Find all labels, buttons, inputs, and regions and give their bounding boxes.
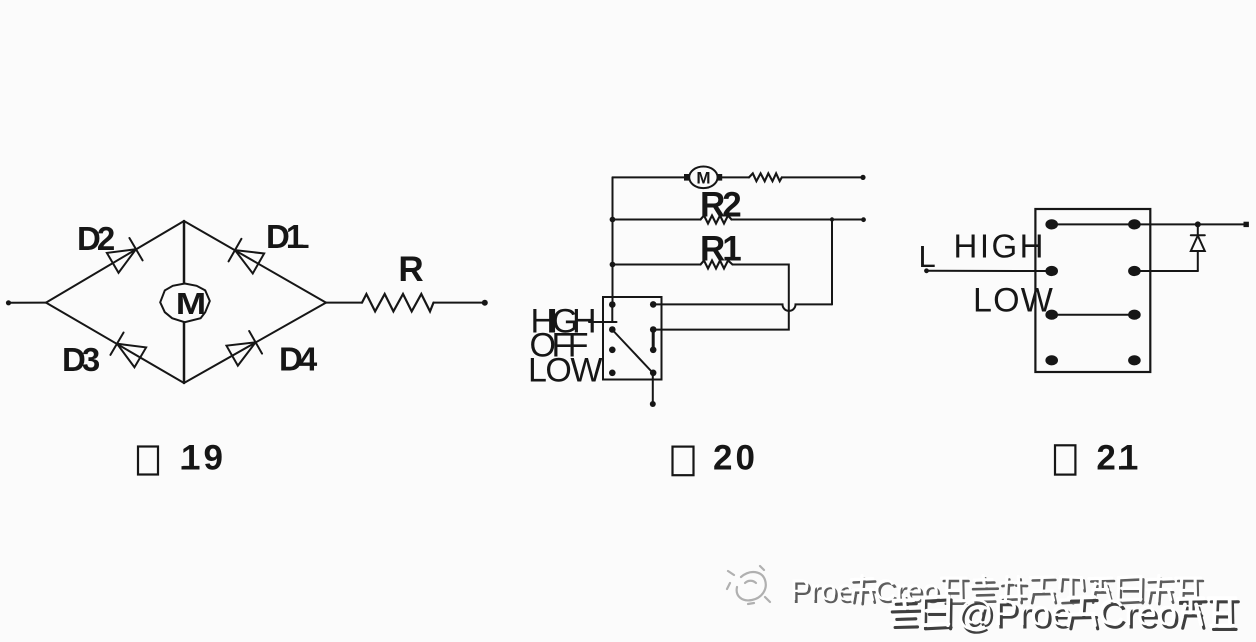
wire: diode to row2 right pin xyxy=(1134,270,1197,272)
node: right terminal fig21 xyxy=(1244,222,1249,227)
svg-text:HIGH: HIGH xyxy=(954,228,1047,265)
node: left terminal of bridge xyxy=(6,300,11,305)
connector left pin 4 xyxy=(1045,355,1058,365)
wire: left bus of fig20 xyxy=(612,177,614,304)
connector right pin 2 xyxy=(1128,266,1141,276)
wire: row3 link xyxy=(1052,314,1135,316)
node: bus junction at R2 row xyxy=(610,217,616,223)
wire: row1 link xyxy=(1052,223,1135,225)
caption fig 19 (tofu box) xyxy=(138,447,158,475)
wire: R1 row left segment xyxy=(613,264,701,266)
wire: branch to switch top-right contact with hop over R1 branch xyxy=(653,304,832,311)
wire: stub from contact 1 to HIGH lead xyxy=(611,305,613,323)
svg-text:20: 20 xyxy=(713,439,758,478)
svg-text:D1: D1 xyxy=(266,218,304,255)
motor M2 left terminal xyxy=(684,174,689,181)
wire: vertical branch from R2 row down xyxy=(831,220,833,305)
svg-text:D3: D3 xyxy=(62,341,100,378)
wire: row2 left lead out xyxy=(927,270,1052,272)
wire: vertical branch through motor xyxy=(183,221,186,383)
diode D1 xyxy=(229,239,265,275)
wire: diamond lower-right side (B to R) xyxy=(184,303,326,383)
wire: bottom stub of switch xyxy=(652,373,654,404)
switch wiper (diagonal) xyxy=(613,331,653,373)
node: left lead end xyxy=(924,268,929,273)
motor M1 body (irregular circle) xyxy=(160,284,210,323)
motor M1 label xyxy=(176,287,206,322)
wire: motor to series resistor xyxy=(722,176,749,178)
svg-text:D4: D4 xyxy=(279,341,318,378)
switch left contact 3 xyxy=(609,347,616,354)
connector left pin 3 xyxy=(1045,310,1058,320)
wire: row1 out to right terminal xyxy=(1134,223,1245,225)
switch right contact 5 xyxy=(650,301,657,308)
wire: diamond upper-right side (T to R) xyxy=(184,221,326,303)
node: junction R2/branch xyxy=(830,217,834,221)
wire: resistor to top-right terminal xyxy=(782,176,863,178)
resistor R1 xyxy=(701,261,733,269)
watermark line1 Proe-Creo title xyxy=(790,574,1203,610)
switch right contact 8 xyxy=(650,370,657,377)
wire: R2 row right segment xyxy=(732,219,864,221)
svg-text:Proe: Proe xyxy=(790,574,853,607)
svg-text:19: 19 xyxy=(181,438,226,477)
caption fig 20 (tofu box) xyxy=(673,447,694,476)
wire: R2 row left segment xyxy=(613,219,701,221)
svg-text:R1: R1 xyxy=(700,230,741,269)
switch left contact 4 xyxy=(609,370,616,377)
node: bus junction at R1 row xyxy=(610,262,616,268)
connector right pin 3 xyxy=(1128,310,1141,320)
watermark icon (sketch) xyxy=(727,566,770,604)
connector right pin 1 xyxy=(1128,219,1141,229)
wire: HIGH lead dash xyxy=(589,321,617,323)
connector left pin 1 xyxy=(1045,219,1058,229)
switch left contact 1 xyxy=(609,301,616,308)
motor M2 body xyxy=(689,167,717,189)
wire: resistor R to right terminal xyxy=(434,302,485,304)
svg-text:21: 21 xyxy=(1096,439,1141,478)
wire: link contacts 6-7 xyxy=(652,330,655,350)
connector left pin 2 xyxy=(1045,266,1058,276)
caption fig 21 (tofu box) xyxy=(1055,445,1075,474)
wire: motor row left segment xyxy=(613,176,685,178)
node: R2 row end terminal xyxy=(861,217,866,222)
node: diode junction on row1 xyxy=(1195,221,1201,227)
motor M2 right terminal xyxy=(717,174,722,181)
resistor R2 xyxy=(701,216,732,224)
svg-text:D2: D2 xyxy=(77,220,115,257)
diode D5 (vertical) xyxy=(1191,224,1205,271)
switch right contact 6 xyxy=(650,326,657,333)
switch left contact 2 xyxy=(609,326,616,333)
node: bottom terminal of switch xyxy=(650,401,656,407)
diode D2 xyxy=(106,238,142,274)
node: top-right terminal fig20 xyxy=(860,175,865,180)
watermark line2 toutiao handle xyxy=(890,592,1239,637)
node: right terminal of fig19 xyxy=(482,300,488,306)
connector right pin 4 xyxy=(1128,355,1141,365)
svg-text:LOW: LOW xyxy=(973,282,1054,320)
wire: R1 row right segment, turns down to switch xyxy=(653,265,789,330)
svg-text:R: R xyxy=(398,250,423,289)
svg-text:@Proe: @Proe xyxy=(957,592,1071,633)
resistor R xyxy=(362,294,434,311)
connector block body xyxy=(1035,209,1150,372)
svg-text:LOW: LOW xyxy=(528,352,602,390)
svg-text:Creo: Creo xyxy=(1098,592,1177,633)
svg-text:M: M xyxy=(176,287,206,322)
wire: bridge right vertex to resistor R xyxy=(326,302,362,304)
diode D3 xyxy=(110,332,146,368)
switch right contact 7 xyxy=(650,347,657,354)
wire: diamond lower-left side (B to L) xyxy=(46,303,184,383)
wire: diamond upper-left side (L to T) xyxy=(46,221,184,303)
resistor (series with motor) xyxy=(749,173,782,181)
wire: left lead to bridge xyxy=(9,302,47,304)
diode D4 xyxy=(226,331,262,367)
svg-text:L: L xyxy=(919,239,936,274)
switch S1 body xyxy=(603,297,662,380)
